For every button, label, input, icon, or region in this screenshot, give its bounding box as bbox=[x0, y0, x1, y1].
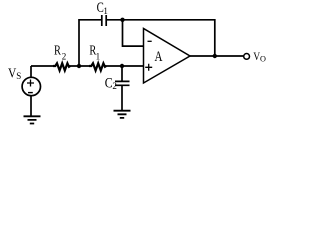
wire R1 to op-amp plus input bbox=[105, 65, 144, 67]
source plus sign bbox=[27, 80, 34, 87]
svg-text:1: 1 bbox=[96, 51, 101, 61]
wire branch up from R2-R1 node to C1 bbox=[79, 20, 102, 66]
wire top feedback from C1 to output bbox=[106, 20, 215, 56]
resistor R1 bbox=[89, 63, 106, 70]
node junction at C2 tap bbox=[120, 64, 124, 68]
svg-text:R: R bbox=[54, 43, 62, 58]
resistor R2 bbox=[53, 63, 70, 70]
svg-text:S: S bbox=[16, 71, 21, 81]
node junction on top wire bbox=[120, 18, 124, 22]
ground under C2 bbox=[114, 111, 131, 118]
svg-text:V: V bbox=[8, 67, 16, 82]
source VS circle bbox=[22, 77, 40, 95]
op-amp A bbox=[144, 29, 191, 84]
svg-text:1: 1 bbox=[103, 6, 108, 16]
node junction between R2 and R1 bbox=[77, 64, 81, 68]
ground under VS bbox=[24, 116, 41, 123]
op-amp minus sign bbox=[148, 40, 152, 42]
wire R2 to R1 bbox=[69, 65, 90, 67]
wire from top junction down to minus input bbox=[123, 20, 144, 46]
op-amp plus sign bbox=[145, 64, 152, 71]
capacitor C2 bbox=[121, 66, 123, 81]
wire main horizontal from source to R2 bbox=[31, 65, 53, 67]
capacitor C1 bbox=[102, 15, 106, 26]
output terminal open circle bbox=[244, 54, 250, 60]
svg-text:2: 2 bbox=[62, 51, 66, 61]
source minus sign bbox=[28, 92, 33, 94]
wire op-amp output bbox=[190, 55, 243, 57]
wire C2 to ground bbox=[121, 85, 123, 110]
source VS vertical wire to main bbox=[30, 66, 32, 78]
svg-text:A: A bbox=[155, 49, 164, 65]
svg-text:2: 2 bbox=[112, 81, 117, 91]
svg-text:O: O bbox=[260, 55, 266, 64]
node junction at output feedback tap bbox=[213, 54, 217, 58]
wire VS to ground bbox=[30, 96, 32, 117]
